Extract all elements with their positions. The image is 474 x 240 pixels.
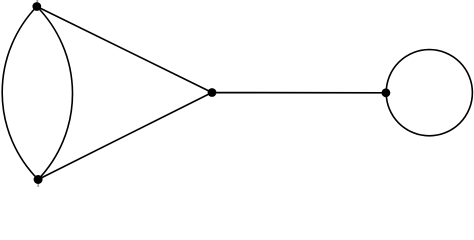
edge A-B inner arc [37, 7, 73, 180]
node D [382, 88, 391, 97]
node B [34, 175, 43, 184]
edge A-B outer arc [2, 7, 38, 180]
self-loop at node D [386, 50, 472, 136]
node C [208, 88, 217, 97]
edge C-D [212, 92, 386, 94]
cropped edge stub below node B [37, 184, 39, 188]
node A [32, 2, 41, 11]
edge B-C [38, 93, 212, 180]
edge A-C [37, 7, 212, 93]
cropped edge stub above node A [36, 0, 38, 4]
